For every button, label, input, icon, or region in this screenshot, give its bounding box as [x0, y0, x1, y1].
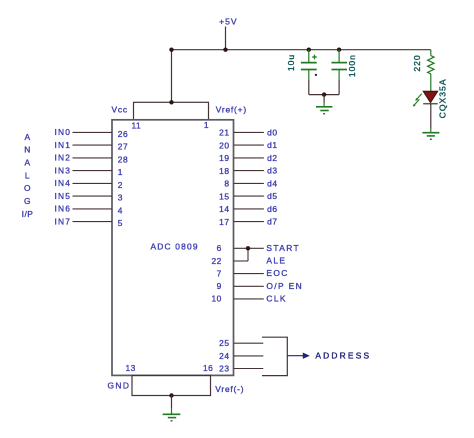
svg-text:14: 14	[219, 204, 229, 214]
wire d5 pin	[234, 195, 264, 197]
svg-text:2: 2	[118, 180, 123, 190]
wire IN5 pin	[73, 195, 113, 197]
junction C2	[337, 48, 341, 52]
wire pin 25	[234, 342, 264, 344]
wire EOC pin	[234, 273, 264, 275]
svg-text:28: 28	[118, 155, 128, 165]
resistor R1 220	[428, 50, 434, 92]
svg-text:A: A	[24, 132, 30, 142]
LED D1	[413, 91, 438, 106]
svg-text:15: 15	[219, 191, 229, 201]
svg-text:d4: d4	[267, 178, 278, 188]
svg-text:9: 9	[217, 281, 222, 291]
wire IN2 pin	[73, 157, 113, 159]
svg-text:Vref(+): Vref(+)	[216, 104, 247, 114]
svg-text:Vcc: Vcc	[112, 104, 128, 114]
svg-text:IN0: IN0	[55, 127, 72, 137]
svg-text:O/P EN: O/P EN	[266, 281, 303, 291]
svg-text:START: START	[266, 243, 300, 253]
wire +5V rail	[172, 49, 431, 51]
svg-text:IN6: IN6	[55, 204, 72, 214]
svg-text:6: 6	[217, 243, 222, 253]
wire IN7 pin	[73, 221, 113, 223]
wire IN4 pin	[73, 182, 113, 184]
svg-text:4: 4	[118, 206, 123, 216]
wire IN1 pin	[73, 144, 113, 146]
svg-text:d5: d5	[267, 191, 278, 201]
svg-text:27: 27	[118, 142, 128, 152]
wire O/P EN pin	[234, 285, 264, 287]
svg-text:220: 220	[412, 54, 422, 71]
wire d3 pin	[234, 170, 264, 172]
svg-text:13: 13	[126, 363, 136, 373]
svg-text:d2: d2	[267, 153, 278, 163]
wire d1 pin	[234, 144, 264, 146]
junction +5V	[223, 48, 227, 52]
svg-text:5: 5	[118, 218, 123, 228]
op IC U1 ADC0809 body	[112, 120, 234, 376]
svg-text:IN1: IN1	[55, 140, 72, 150]
wire d4 pin	[234, 182, 264, 184]
svg-text:L: L	[25, 170, 30, 180]
wire d6 pin	[234, 208, 264, 210]
wire ALE to START junction	[247, 248, 249, 261]
svg-text:IN4: IN4	[55, 178, 72, 188]
svg-text:7: 7	[217, 268, 222, 278]
svg-text:N: N	[24, 145, 31, 155]
svg-text:18: 18	[219, 166, 229, 176]
node ADDRESS arrow	[287, 353, 310, 359]
junction cap-ground	[322, 92, 326, 96]
svg-text:100n: 100n	[347, 54, 357, 77]
wire CLK pin	[234, 298, 264, 300]
svg-text:19: 19	[219, 153, 229, 163]
svg-text:ADDRESS: ADDRESS	[315, 350, 371, 360]
svg-text:+5V: +5V	[219, 17, 238, 27]
wire rail drop to Vcc box	[171, 50, 173, 103]
wire Vcc-Vref(+) top loop	[134, 102, 209, 120]
svg-text:16: 16	[203, 363, 213, 373]
svg-text:26: 26	[118, 129, 128, 139]
svg-text:IN2: IN2	[55, 153, 72, 163]
svg-text:11: 11	[132, 121, 142, 131]
label ANALOG I/P	[22, 132, 34, 219]
wire d0 pin	[234, 131, 264, 133]
svg-text:17: 17	[219, 217, 229, 227]
wire IN0 pin	[73, 131, 113, 133]
svg-text:20: 20	[219, 140, 229, 150]
svg-text:3: 3	[118, 193, 123, 203]
svg-text:1: 1	[204, 120, 209, 130]
svg-text:8: 8	[224, 179, 229, 189]
ground (capacitors)	[316, 95, 332, 115]
wire d2 pin	[234, 157, 264, 159]
svg-text:EOC: EOC	[266, 268, 288, 278]
ground (main)	[163, 396, 181, 422]
wire pin 23	[234, 368, 264, 370]
svg-text:25: 25	[219, 338, 229, 348]
junction START/ALE	[246, 246, 250, 250]
svg-text:24: 24	[219, 351, 229, 361]
wire address bracket	[262, 337, 287, 375]
svg-text:CQX35A: CQX35A	[437, 78, 447, 118]
capacitor C2 100n	[332, 50, 348, 95]
svg-text:A: A	[24, 158, 30, 168]
junction bottom box	[169, 393, 173, 397]
svg-text:GND: GND	[108, 381, 131, 391]
wire d7 pin	[234, 221, 264, 223]
junction C1	[307, 48, 311, 52]
svg-text:CLK: CLK	[266, 293, 287, 303]
ground (LED)	[422, 129, 439, 140]
svg-text:IN3: IN3	[55, 165, 72, 175]
wire +5V stub	[225, 27, 227, 51]
svg-text:ADC 0809: ADC 0809	[151, 241, 199, 251]
svg-text:d7: d7	[267, 217, 278, 227]
junction rail-left	[169, 48, 173, 52]
wire GND-Vref(-) bottom loop	[132, 375, 211, 395]
svg-text:O: O	[24, 183, 31, 193]
svg-text:G: G	[24, 196, 31, 206]
junction top box	[169, 100, 173, 104]
capacitor C1 10u	[301, 50, 317, 95]
svg-text:1: 1	[118, 167, 123, 177]
wire IN6 pin	[73, 208, 113, 210]
svg-text:Vref(-): Vref(-)	[215, 384, 244, 394]
wire LED to ground	[430, 104, 432, 129]
wire pin 24	[234, 355, 264, 357]
svg-text:I/P: I/P	[22, 209, 34, 219]
wire capacitor bottoms	[309, 94, 339, 96]
wire START pin	[234, 247, 264, 249]
svg-text:ALE: ALE	[266, 256, 286, 266]
svg-text:d1: d1	[267, 140, 278, 150]
svg-text:d0: d0	[267, 127, 278, 137]
svg-text:d3: d3	[267, 166, 278, 176]
wire ALE pin	[234, 260, 248, 262]
svg-text:IN7: IN7	[55, 216, 72, 226]
svg-text:22: 22	[211, 256, 221, 266]
svg-text:10u: 10u	[286, 54, 296, 71]
svg-text:21: 21	[219, 128, 229, 138]
svg-text:IN5: IN5	[55, 191, 72, 201]
svg-text:23: 23	[219, 364, 229, 374]
svg-text:d6: d6	[267, 204, 278, 214]
svg-text:10: 10	[211, 294, 221, 304]
wire IN3 pin	[73, 170, 113, 172]
